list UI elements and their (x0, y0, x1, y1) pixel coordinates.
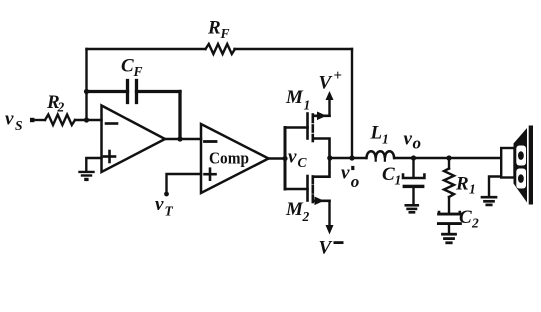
label Comp (209, 149, 249, 168)
svg-text:v: v (404, 129, 413, 150)
svg-text:1: 1 (395, 173, 402, 188)
node vT terminal dot (164, 192, 169, 197)
label R2 (46, 92, 65, 115)
node R1 junction dot (446, 155, 451, 160)
wire op-amp plus input to ground (86, 158, 101, 171)
wire comparator plus input to vT (167, 174, 202, 193)
svg-text:Comp: Comp (209, 149, 249, 168)
svg-text:+: + (334, 68, 343, 84)
label RF (207, 18, 230, 42)
svg-text:1: 1 (304, 98, 311, 113)
wire CF right vertical to op-amp output (178, 92, 181, 140)
svg-text:2: 2 (471, 216, 479, 231)
capacitor CF (87, 81, 181, 103)
svg-text:o: o (413, 134, 422, 153)
svg-text:F: F (133, 64, 143, 79)
wire output node to L1 (330, 157, 366, 159)
capacitor C2 (438, 212, 460, 233)
wire feedback left vertical (85, 49, 87, 120)
svg-text:C: C (382, 164, 395, 185)
node feedback junction dot (349, 155, 354, 160)
label M2 (285, 199, 310, 224)
svg-text:V: V (319, 238, 333, 259)
svg-text:L: L (370, 123, 383, 144)
node C junction dot op-amp output (177, 136, 182, 141)
label V+ (319, 68, 343, 94)
node vC junction dot (282, 156, 287, 161)
label vO' (341, 163, 359, 192)
ground speaker (482, 197, 496, 205)
label vO (404, 129, 422, 153)
label M1 (285, 87, 310, 113)
transistor M2 (308, 158, 330, 205)
wire M1 source to V+ arrow (326, 91, 334, 116)
comparator U2 (201, 124, 269, 193)
label R1 (455, 174, 476, 197)
wire op-amp output to comparator (165, 138, 201, 140)
resistor R2 (45, 115, 75, 126)
wire gate lead M1 (285, 126, 308, 129)
wire L1 to vO node (394, 157, 413, 159)
inductor L1 (367, 151, 395, 160)
svg-text:2: 2 (57, 100, 65, 115)
svg-text:2: 2 (302, 209, 310, 224)
resistor R1 (444, 158, 454, 212)
transistor M1 (308, 112, 330, 159)
wire vS to R2 (34, 119, 45, 121)
label vT (155, 194, 174, 219)
node vS input terminal (30, 118, 34, 122)
svg-text:T: T (165, 204, 174, 219)
svg-text:v: v (288, 147, 297, 168)
svg-text:F: F (220, 26, 230, 41)
svg-text:C: C (298, 155, 308, 170)
label C1 (382, 164, 401, 188)
ground op-amp (80, 172, 94, 181)
wire M2 source to V- arrow (326, 201, 334, 235)
wire gate lead M2 (285, 188, 308, 191)
resistor RF (206, 44, 236, 54)
wire R1 node to speaker (449, 157, 501, 159)
svg-text:1: 1 (382, 132, 389, 147)
svg-text:R: R (455, 174, 469, 195)
speaker LS1 (501, 126, 533, 205)
wire speaker return stub (489, 177, 501, 196)
wire gate bus vertical (284, 128, 287, 190)
svg-text:V: V (319, 73, 333, 94)
node vO' junction dot (327, 155, 332, 160)
ground C2 (443, 234, 456, 243)
label V- (319, 238, 344, 259)
label vC (288, 147, 308, 171)
ground C1 (406, 205, 418, 212)
wire R2 to op-amp minus input (75, 119, 102, 121)
svg-text:M: M (285, 199, 304, 220)
label L1 (370, 123, 389, 147)
wire top feedback left segment (87, 48, 206, 50)
label CF (121, 56, 143, 80)
wire feedback right vertical to output node (351, 49, 353, 158)
svg-text:o: o (351, 172, 360, 191)
op-amp U1 (102, 106, 166, 173)
svg-text:M: M (285, 87, 304, 108)
svg-text:v: v (5, 109, 14, 130)
wire top feedback right segment (235, 48, 353, 50)
svg-text:C: C (459, 207, 472, 228)
node B junction dot CF tap (84, 89, 89, 94)
node A junction dot at inverting input (84, 117, 89, 122)
capacitor C1 (403, 158, 425, 204)
svg-text:v: v (155, 194, 164, 215)
label vS (5, 109, 23, 134)
svg-text:1: 1 (469, 182, 476, 197)
svg-text:S: S (15, 118, 23, 133)
wire vO node to R1 node (414, 157, 450, 159)
svg-text:v: v (341, 163, 350, 184)
svg-text:C: C (121, 56, 134, 77)
svg-text:R: R (207, 18, 221, 39)
wire comparator output to gate bus (269, 157, 286, 159)
node vO junction dot (411, 155, 416, 160)
label C2 (459, 207, 479, 231)
